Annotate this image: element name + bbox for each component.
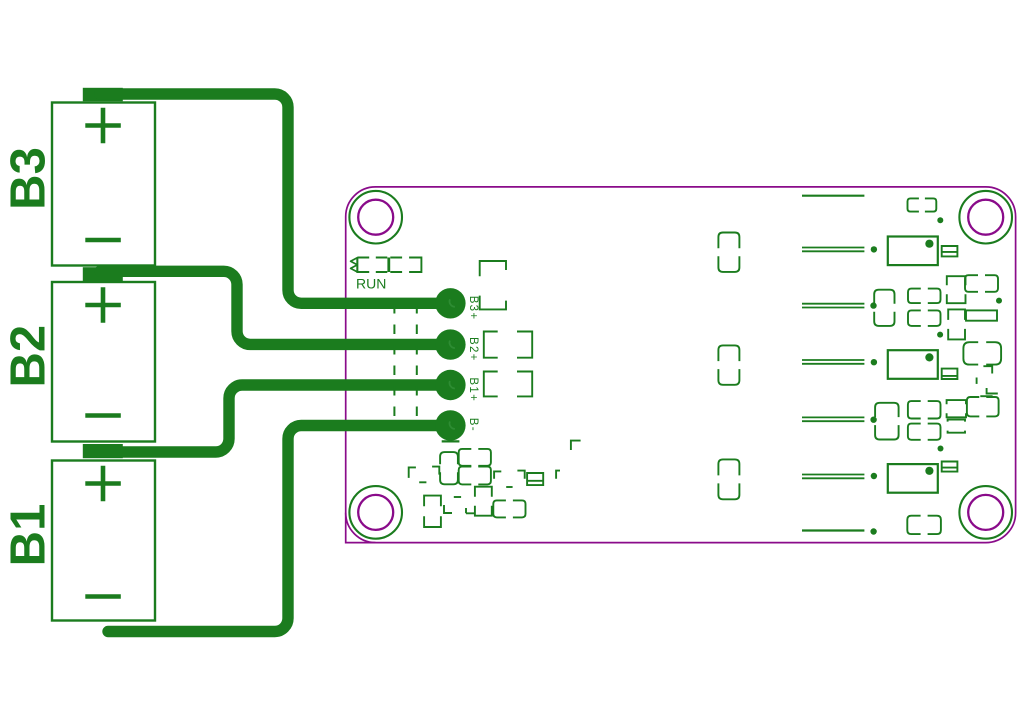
cluster A cap pair upper [908,289,941,304]
svg-text:B2+: B2+ [467,337,479,362]
bl vertical cap [440,452,458,484]
trace row 6 with junction dot [802,473,877,479]
resistor body channel 2 [888,350,938,379]
dash below hook [976,378,978,384]
footprint brackets at pad B2+ [484,332,532,358]
mounting hole bottom-left [349,486,402,539]
cluster B cap pair upper [908,401,941,418]
wire B3+ (battery B3 top to pad B3+) [100,94,450,303]
PCB board outline [346,187,1016,543]
footprint outline above/below pad B3+ [480,261,506,309]
bl corner d [517,471,524,479]
bl cap pair bottom [493,500,525,517]
bl corner b [432,467,439,475]
cluster A vertical bracket [947,276,966,303]
small pad rect channel 3 [942,246,958,256]
capacitor outline C row6 [718,459,739,499]
RUN label [356,276,386,292]
cap pair right of channel 2 [963,342,1001,364]
svg-text:B1+: B1+ [467,377,479,402]
battery B1 label [2,504,56,567]
pad label B3+ [467,296,479,321]
trace row 2 with junction dot [802,246,877,252]
trace row 4 with junction dot [802,359,877,365]
cluster A top-right cap pair [965,275,998,292]
cluster B cap pair lower [908,424,941,440]
polarity dot channel 2 [925,353,933,361]
cluster A vertical cap [874,290,894,326]
bl vertical bracket tall [424,496,441,527]
resistor body channel 3 [888,237,938,266]
trace row 1 [802,195,864,197]
capacitor outline C row4 [718,345,739,384]
small pad rect channel 2 [942,369,958,379]
battery B2 label [2,325,56,388]
battery B2 plus terminal symbol [85,287,121,323]
bl corner f [571,441,581,450]
cluster B bottom dot [938,446,944,452]
bl dash d [454,496,461,498]
svg-text:RUN: RUN [356,276,386,292]
cluster A junction dot left [937,332,943,338]
bl dash c [506,486,512,488]
pad label B- [467,418,479,432]
cap pair bottom right [907,516,941,534]
bl corner c [494,471,501,478]
pad B2+ [435,329,465,359]
bl corner e [556,471,560,479]
wire B- (battery B1 bottom to pad B-) [108,426,450,632]
svg-text:B2: B2 [2,325,56,388]
bl dash a [419,481,426,483]
battery B3 positive cap [83,88,123,102]
battery B2 positive cap (B3-/B2+ junction) [83,267,123,281]
battery B3 label [2,147,56,210]
wire B1+ (B2/B1 junction to pad B1+) [100,385,450,452]
battery B2 body [52,282,155,442]
small pad rect channel 1 [942,462,958,472]
cluster A junction dot right [996,298,1002,304]
cap pair top right [908,198,937,211]
mounting hole bottom-right [959,486,1012,539]
battery B3 minus terminal symbol [85,238,121,243]
wire B2+ (B3/B2 junction to pad B2+) [100,271,450,344]
battery B1 positive cap (B2-/B1+ junction) [83,444,123,458]
cluster B right cap pair [967,397,999,416]
footprint brackets at pad B1+ [484,372,532,397]
mounting hole top-left [349,191,402,244]
mounting hole top-right [959,191,1012,244]
battery B3 plus terminal symbol [85,108,121,144]
svg-text:B-: B- [467,418,479,432]
battery B1 minus terminal symbol [85,594,121,599]
hook 2 right of channel 2 [987,388,998,394]
svg-text:B1: B1 [2,504,56,567]
pad B1+ [435,370,465,400]
dot below top cap pair [937,217,943,223]
hook right of channel 2 [983,366,992,373]
dashed net line 2 [416,304,418,426]
pad label B1+ [467,377,479,402]
bl vertical bracket 2 [475,487,492,516]
bl hook L [444,505,452,513]
polarity dot channel 1 [925,467,933,475]
cluster A wide rect [966,310,997,320]
battery B1 plus terminal symbol [85,466,121,502]
cluster A cap pair lower [908,310,941,326]
dashed net line 1 [393,304,395,426]
battery B1 body [52,461,155,621]
pad B3+ [435,288,465,318]
svg-text:B3: B3 [2,147,56,210]
pad B- [435,410,465,440]
pad label B2+ [467,337,479,362]
bl dash top [442,440,460,442]
svg-text:B3+: B3+ [467,296,479,321]
cluster A lower vertical bracket [948,309,965,339]
trace row 7 with junction dot [802,528,877,534]
bl cap pair lower [459,467,491,485]
cluster B top dash [980,395,992,397]
cluster B lower vertical bracket [948,420,965,433]
cluster B vertical bracket [947,400,966,417]
battery B2 minus terminal symbol [85,413,121,418]
bl small rect [527,473,543,485]
battery B3 body [52,103,155,266]
trace row 5 with junction dot [802,417,877,423]
bl hook J [466,508,474,513]
bl cap pair upper [459,449,491,466]
cluster B vertical cap [875,403,899,440]
resistor body channel 1 [888,464,938,493]
bl corner a [409,467,416,478]
connector J1 (RUN) outline [351,258,422,273]
trace row 3 with junction dot [802,302,877,308]
polarity dot channel 3 [925,240,933,248]
capacitor outline C row2 [718,233,739,272]
